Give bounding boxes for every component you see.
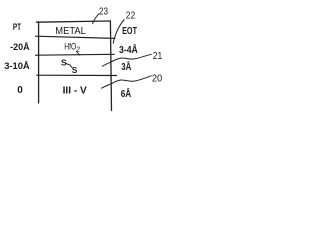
svg-text:6Å: 6Å	[121, 87, 132, 100]
svg-text:3Å: 3Å	[121, 60, 131, 73]
svg-text:-20Å: -20Å	[10, 42, 30, 53]
svg-text:HfO: HfO	[64, 41, 76, 52]
svg-text:23: 23	[99, 7, 108, 18]
svg-text:3-4Å: 3-4Å	[119, 43, 138, 56]
svg-text:S: S	[61, 58, 67, 68]
svg-text:METAL: METAL	[55, 26, 86, 37]
svg-text:EOT: EOT	[122, 26, 137, 37]
svg-text:PT: PT	[13, 22, 22, 32]
svg-text:22: 22	[126, 11, 135, 22]
svg-text:21: 21	[153, 51, 163, 62]
svg-text:0: 0	[17, 85, 23, 96]
svg-text:3-10Å: 3-10Å	[4, 61, 30, 72]
svg-text:S: S	[72, 65, 78, 75]
svg-text:2: 2	[76, 46, 80, 53]
svg-text:20: 20	[152, 73, 163, 84]
svg-text:III - V: III - V	[63, 86, 88, 97]
